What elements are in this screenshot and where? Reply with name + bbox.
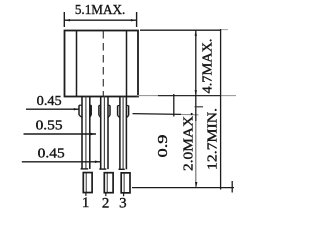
dimension 5.1MAX left arrowhead — [64, 19, 70, 21]
short tick on 4.7MAX line at y107 — [195, 106, 204, 108]
dimension 0.55 leader line — [24, 133, 97, 135]
svg-text:2: 2 — [102, 195, 110, 211]
svg-text:0.55: 0.55 — [36, 118, 63, 133]
lead 1 tip (broken lead end) — [83, 173, 92, 196]
svg-text:5.1MAX.: 5.1MAX. — [75, 3, 126, 18]
lead 3 tip (broken lead end) — [121, 173, 130, 196]
body inner mold line left — [76, 31, 78, 97]
svg-text:0.9: 0.9 — [156, 135, 171, 158]
top extension line gray tail — [221, 29, 228, 31]
dimension 4.7MAX / 2.0MAX dimension line (V1) — [195, 30, 197, 121]
dimension 0.9 dimension line — [173, 94, 175, 117]
dimension 5.1MAX extension line right — [136, 12, 138, 27]
svg-text:0.45: 0.45 — [38, 147, 65, 162]
dimension 0.55 arrowhead — [90, 133, 96, 136]
svg-text:3: 3 — [119, 196, 127, 212]
body center dashed line — [102, 31, 104, 96]
svg-text:1: 1 — [82, 195, 90, 211]
dimension 5.1MAX extension line left — [63, 12, 65, 27]
package body outline — [65, 31, 139, 97]
body inner mold line right — [126, 31, 128, 97]
dimension 4.7MAX top arrowhead — [195, 30, 197, 36]
extension line from lead shoulder bottom (E2) — [133, 113, 182, 116]
bottom extension line at lead tips — [132, 187, 234, 189]
dimension 5.1MAX dimension line — [64, 19, 136, 21]
extension line from body top right corner — [140, 29, 221, 31]
bottom line right end tick — [231, 181, 233, 193]
lead 2 — [99, 97, 110, 170]
lead 1 — [79, 97, 91, 169]
svg-text:4.7MAX.: 4.7MAX. — [201, 39, 216, 94]
svg-text:0.45: 0.45 — [37, 94, 62, 109]
lead 2 tip (broken lead end) — [104, 173, 113, 196]
dimension 4.7MAX bottom arrowhead — [195, 90, 197, 95]
dimension 0.45 upper leader line — [26, 108, 80, 110]
dimension 5.1MAX right arrowhead — [131, 19, 137, 21]
svg-text:12.7MIN.: 12.7MIN. — [206, 108, 221, 170]
lead 3 — [118, 97, 129, 170]
dimension 0.45 lower arrowhead — [95, 161, 101, 164]
dimension 12.7MIN dimension line (V2) — [220, 29, 222, 190]
dimension 2.0MAX bottom arrowhead — [195, 182, 197, 188]
svg-text:2.0MAX.: 2.0MAX. — [182, 112, 197, 171]
dimension 0.45 upper arrowhead — [74, 108, 80, 110]
dimension 0.45 lower leader line — [22, 161, 101, 163]
extension line from body bottom right (E1) — [136, 95, 158, 97]
